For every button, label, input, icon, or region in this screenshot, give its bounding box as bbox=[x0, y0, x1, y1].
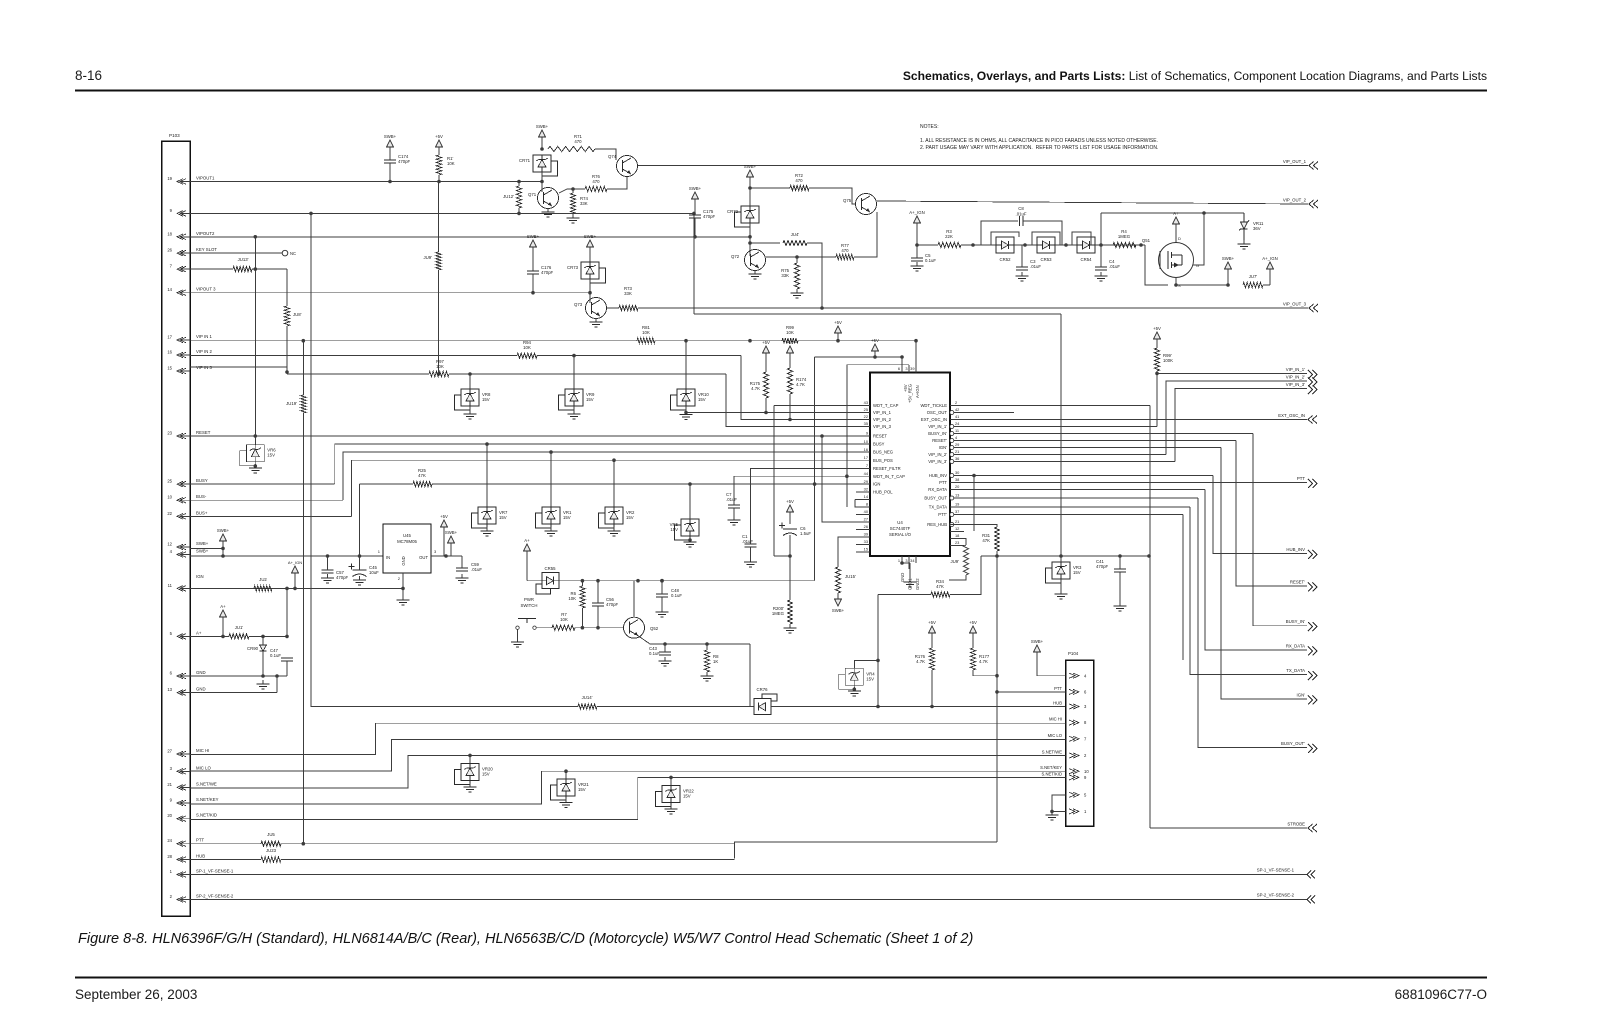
ground bbox=[321, 574, 334, 583]
junction bbox=[915, 243, 919, 247]
power A+_IGN bbox=[1262, 256, 1277, 269]
svg-text:0.1uF: 0.1uF bbox=[270, 653, 281, 658]
zener VR3 bbox=[1046, 562, 1082, 583]
wire bbox=[575, 627, 623, 629]
P104 pin 5 bbox=[1069, 792, 1087, 797]
jumper JU5 bbox=[261, 832, 281, 846]
svg-text:CR55: CR55 bbox=[545, 566, 557, 571]
U4 pin 10 bbox=[856, 439, 885, 447]
net VIP_OUT_3 bbox=[1283, 302, 1318, 313]
U4 pin 25 bbox=[856, 407, 892, 415]
wire bbox=[874, 351, 876, 357]
svg-text:33K: 33K bbox=[580, 201, 588, 206]
svg-text:PTT: PTT bbox=[1054, 686, 1062, 691]
svg-text:15V: 15V bbox=[1073, 570, 1081, 575]
svg-text:VIPOUT 3: VIPOUT 3 bbox=[196, 287, 216, 292]
junction bbox=[876, 705, 880, 709]
wire PTT bbox=[190, 843, 261, 845]
svg-text:HUB_POL: HUB_POL bbox=[873, 490, 893, 495]
svg-text:470pF: 470pF bbox=[703, 214, 716, 219]
net PTT bbox=[1297, 476, 1317, 488]
wire bbox=[541, 137, 543, 149]
wire bbox=[685, 341, 687, 389]
P104 pin 10 bbox=[1040, 765, 1089, 774]
P104 pin 4 bbox=[1069, 673, 1087, 678]
wire VIP IN 2 bbox=[190, 355, 517, 357]
wire bbox=[1263, 284, 1270, 286]
svg-text:20: 20 bbox=[167, 813, 172, 818]
junction bbox=[1155, 372, 1159, 376]
wire bbox=[1032, 232, 1060, 245]
P103 pin 9 bbox=[170, 208, 190, 216]
svg-text:+5V: +5V bbox=[834, 320, 842, 325]
U4 pin 39 bbox=[856, 532, 870, 537]
wire bbox=[664, 644, 666, 652]
svg-text:MIC LO: MIC LO bbox=[196, 765, 211, 770]
capacitor C59 bbox=[456, 562, 482, 572]
label IGN bbox=[196, 574, 204, 579]
svg-text:S.NET/WE: S.NET/WE bbox=[1042, 750, 1062, 755]
wire bbox=[1198, 498, 1307, 748]
wire bbox=[597, 581, 599, 603]
svg-text:SP-1_VF-SENSE-1: SP-1_VF-SENSE-1 bbox=[1257, 868, 1295, 873]
svg-text:8: 8 bbox=[866, 502, 868, 507]
junction bbox=[437, 180, 441, 184]
junction bbox=[972, 474, 976, 478]
wire VIPOUT1 bbox=[190, 181, 542, 183]
U4 pin 8 bbox=[856, 502, 870, 507]
capacitor C6 bbox=[779, 523, 811, 537]
svg-text:SP-2_VF-SENSE-2: SP-2_VF-SENSE-2 bbox=[196, 894, 234, 899]
ground bbox=[848, 687, 861, 696]
U4 pin 7 bbox=[856, 463, 901, 471]
svg-text:Q75: Q75 bbox=[843, 198, 852, 203]
header rule bbox=[75, 90, 1487, 92]
svg-text:+5V: +5V bbox=[928, 620, 936, 625]
svg-text:GND: GND bbox=[401, 556, 406, 565]
wire bbox=[847, 364, 909, 366]
svg-text:NOTES:: NOTES: bbox=[920, 124, 939, 130]
wire bbox=[789, 556, 791, 600]
wire bbox=[1023, 221, 1062, 245]
svg-text:10K: 10K bbox=[560, 617, 568, 622]
U4 pin 30 bbox=[929, 470, 964, 478]
ground bbox=[590, 318, 603, 327]
svg-text:CR52: CR52 bbox=[1000, 257, 1012, 262]
junction bbox=[788, 554, 792, 558]
svg-text:47K: 47K bbox=[418, 473, 426, 478]
junction bbox=[873, 355, 877, 359]
svg-text:15V: 15V bbox=[499, 515, 507, 520]
svg-text:25: 25 bbox=[167, 479, 172, 484]
resistor R8 bbox=[704, 650, 719, 672]
svg-text:C8: C8 bbox=[1018, 206, 1024, 211]
svg-text:RESET': RESET' bbox=[932, 438, 947, 443]
svg-text:4.7K: 4.7K bbox=[916, 659, 925, 664]
net VIP_OUT_1 bbox=[1283, 159, 1318, 170]
junction bbox=[795, 255, 799, 259]
svg-text:SWB+: SWB+ bbox=[196, 549, 209, 554]
wire bbox=[685, 406, 687, 413]
svg-text:33K: 33K bbox=[781, 273, 789, 278]
wire bbox=[360, 483, 414, 485]
power A+ bbox=[1172, 211, 1179, 224]
wire bbox=[581, 581, 583, 586]
wire bbox=[749, 223, 751, 237]
svg-text:RESET': RESET' bbox=[1290, 579, 1305, 584]
svg-text:2. PART USAGE MAY VARY WITH AP: 2. PART USAGE MAY VARY WITH APPLICATION.… bbox=[920, 145, 1158, 151]
wire bbox=[1157, 372, 1307, 374]
svg-text:SERIAL I/O: SERIAL I/O bbox=[889, 532, 912, 537]
wire bbox=[572, 189, 574, 193]
P103 pin 16 bbox=[167, 349, 212, 358]
capacitor C45 bbox=[349, 564, 380, 577]
wire bbox=[389, 147, 391, 160]
wire bbox=[950, 539, 966, 546]
jumper JU15' bbox=[835, 567, 856, 593]
notes bbox=[920, 124, 1158, 151]
svg-text:PTT': PTT' bbox=[938, 512, 947, 517]
svg-text:10: 10 bbox=[167, 495, 172, 500]
svg-text:BUS+: BUS+ bbox=[196, 510, 208, 515]
wire bbox=[996, 551, 998, 842]
svg-text:+5V: +5V bbox=[969, 620, 977, 625]
resistor R31 bbox=[982, 527, 999, 551]
U4 pin 33 GND1 bbox=[905, 556, 912, 590]
P103 pin 3 bbox=[170, 765, 212, 774]
svg-text:+5V: +5V bbox=[786, 499, 794, 504]
svg-text:4.7K: 4.7K bbox=[796, 382, 805, 387]
zener VR4 bbox=[839, 668, 875, 689]
transistor Q73 bbox=[574, 298, 607, 319]
resistor R175 bbox=[750, 372, 769, 398]
svg-text:6: 6 bbox=[898, 366, 900, 371]
wire VIP_IN_2' bbox=[964, 454, 1166, 456]
svg-text:28: 28 bbox=[167, 854, 172, 859]
svg-text:SWB+: SWB+ bbox=[584, 234, 597, 239]
wire bbox=[302, 341, 304, 395]
svg-text:470pF: 470pF bbox=[336, 575, 349, 580]
wire bbox=[438, 147, 440, 155]
ground bbox=[1016, 272, 1029, 281]
svg-text:S: S bbox=[1178, 283, 1181, 288]
U4 pin 42 bbox=[927, 407, 964, 415]
P104 pin 7 bbox=[1048, 733, 1087, 742]
svg-text:11: 11 bbox=[955, 428, 959, 433]
junction bbox=[705, 642, 709, 646]
svg-text:39: 39 bbox=[910, 366, 914, 371]
svg-text:13: 13 bbox=[167, 687, 172, 692]
wire bbox=[597, 706, 754, 708]
svg-text:15V: 15V bbox=[683, 794, 691, 799]
junction bbox=[468, 754, 472, 758]
wire bbox=[837, 593, 839, 599]
svg-text:A+: A+ bbox=[220, 604, 226, 609]
resistor R74 bbox=[570, 193, 588, 214]
net IGN' bbox=[1297, 693, 1317, 705]
svg-text:MIC LO: MIC LO bbox=[1048, 733, 1063, 738]
U4 pin 3 +5V_REG bbox=[905, 365, 912, 403]
wire bbox=[222, 541, 224, 556]
svg-text:HUB: HUB bbox=[196, 854, 205, 859]
wire BUS- bbox=[190, 499, 343, 501]
U4 pin 32 bbox=[856, 487, 893, 495]
svg-text:.01uF: .01uF bbox=[742, 539, 753, 544]
wire bbox=[402, 573, 404, 598]
transistor Q51 bbox=[1142, 236, 1199, 288]
wire bbox=[1052, 795, 1066, 812]
wire bbox=[815, 356, 902, 358]
wire bbox=[286, 269, 288, 306]
svg-text:U45: U45 bbox=[403, 533, 411, 538]
U4 pin 22 bbox=[856, 414, 892, 422]
ground bbox=[568, 410, 581, 419]
wire bbox=[789, 394, 791, 420]
wire bbox=[1253, 434, 1307, 626]
wire bbox=[661, 581, 663, 594]
svg-text:VIP_IN_2: VIP_IN_2 bbox=[873, 417, 892, 422]
svg-text:JU5: JU5 bbox=[267, 832, 275, 837]
wire bbox=[276, 676, 278, 693]
U4 pin 39 A+IGN bbox=[910, 341, 920, 398]
svg-text:A+_IGN: A+_IGN bbox=[909, 210, 924, 215]
wire bbox=[726, 374, 870, 427]
junction bbox=[517, 212, 521, 216]
wire bbox=[438, 175, 440, 182]
svg-text:OUT: OUT bbox=[419, 555, 428, 560]
junction bbox=[1059, 554, 1063, 558]
wire bbox=[846, 365, 848, 507]
svg-text:29: 29 bbox=[955, 442, 959, 447]
zener VR2 bbox=[599, 507, 635, 528]
power SWB+ bbox=[1031, 639, 1044, 652]
ground bbox=[560, 799, 573, 808]
svg-text:JU2: JU2 bbox=[259, 577, 267, 582]
wire bbox=[431, 555, 462, 557]
svg-text:1: 1 bbox=[898, 558, 900, 563]
svg-text:19: 19 bbox=[955, 502, 959, 507]
wire bbox=[190, 635, 229, 637]
P103 pin 14 bbox=[167, 287, 216, 296]
svg-text:470: 470 bbox=[795, 178, 803, 183]
wire pin9 bbox=[190, 212, 694, 214]
svg-text:VIP_IN_3: VIP_IN_3 bbox=[873, 424, 892, 429]
connector P104 bbox=[1066, 651, 1094, 826]
svg-text:.01uF: .01uF bbox=[1030, 264, 1041, 269]
jumper JU14' bbox=[578, 695, 597, 709]
capacitor bbox=[689, 209, 716, 219]
P103 pin 28 bbox=[167, 854, 205, 863]
U4 pin 16 bbox=[856, 447, 893, 455]
junction bbox=[660, 579, 664, 583]
svg-text:10K: 10K bbox=[523, 345, 531, 350]
junction bbox=[813, 482, 817, 486]
label C47 position fix bbox=[0, 0, 1, 1]
wire bbox=[1060, 314, 1062, 556]
svg-text:IGN': IGN' bbox=[939, 445, 947, 450]
wire bbox=[950, 525, 997, 528]
jumper JU23 bbox=[261, 848, 281, 862]
svg-text:SWB+: SWB+ bbox=[1031, 639, 1044, 644]
wire bbox=[541, 172, 543, 182]
ground bbox=[456, 574, 469, 583]
svg-text:SWB+: SWB+ bbox=[1222, 256, 1235, 261]
wire bbox=[749, 177, 751, 188]
svg-text:47K: 47K bbox=[936, 584, 944, 589]
svg-text:U4: U4 bbox=[897, 520, 903, 525]
net HUB_INV bbox=[1286, 547, 1317, 559]
diode CR53 bbox=[1037, 237, 1055, 262]
svg-text:EXT_OSC_IN: EXT_OSC_IN bbox=[921, 417, 947, 422]
junction bbox=[285, 635, 289, 639]
svg-text:470pF: 470pF bbox=[398, 159, 411, 164]
svg-text:+5V: +5V bbox=[786, 340, 794, 345]
svg-text:A+_IGN: A+_IGN bbox=[1262, 256, 1277, 261]
junction bbox=[221, 554, 225, 558]
wire bbox=[1060, 556, 1062, 562]
svg-text:RESET: RESET bbox=[196, 430, 211, 435]
capacitor bbox=[911, 253, 936, 263]
svg-text:17: 17 bbox=[864, 455, 868, 460]
transistor Q72 bbox=[731, 250, 766, 271]
wire bbox=[789, 512, 791, 524]
ground bbox=[567, 214, 580, 223]
P103 pin 19 bbox=[167, 176, 215, 185]
power A+_IGN bbox=[288, 560, 302, 573]
wire bbox=[1156, 339, 1158, 348]
svg-text:IN: IN bbox=[386, 555, 390, 560]
svg-text:15V: 15V bbox=[626, 515, 634, 520]
svg-text:MIC HI: MIC HI bbox=[1049, 717, 1062, 722]
U4 pin 34 GND2 bbox=[910, 556, 920, 590]
wire bbox=[573, 356, 575, 389]
svg-text:41: 41 bbox=[955, 414, 959, 419]
junction bbox=[692, 212, 696, 216]
zener CR73 bbox=[567, 262, 606, 283]
wire bbox=[638, 636, 750, 644]
svg-text:24: 24 bbox=[167, 838, 172, 843]
zener VR1 bbox=[536, 507, 572, 528]
svg-text:0.1uF: 0.1uF bbox=[671, 593, 682, 598]
wire bbox=[733, 508, 735, 518]
wire VIP_OUT_1 bbox=[638, 165, 1308, 167]
wire BUSY_OUT bbox=[964, 497, 1198, 499]
junction bbox=[1050, 810, 1054, 814]
wire bbox=[902, 562, 910, 564]
ground bbox=[1114, 602, 1127, 611]
svg-text:0.1uF: 0.1uF bbox=[925, 258, 936, 263]
svg-text:P104: P104 bbox=[1068, 651, 1079, 656]
svg-text:JU8': JU8' bbox=[293, 312, 302, 317]
U4 pin 43 bbox=[856, 400, 899, 408]
ground bbox=[481, 527, 494, 536]
svg-text:SWB+: SWB+ bbox=[689, 186, 702, 191]
svg-text:WDT_T_CAP: WDT_T_CAP bbox=[873, 403, 899, 408]
svg-text:BUSY_OUT': BUSY_OUT' bbox=[1281, 741, 1305, 746]
junction bbox=[788, 418, 792, 422]
junction bbox=[221, 635, 225, 639]
wire bbox=[1014, 244, 1037, 246]
wire EXT_OSC_IN bbox=[964, 419, 1307, 421]
wire bbox=[949, 575, 966, 580]
jumper JU9' bbox=[424, 252, 442, 270]
svg-text:Q71: Q71 bbox=[528, 192, 537, 197]
P104 pin 8 bbox=[1049, 717, 1087, 726]
wire bbox=[981, 555, 1149, 557]
svg-text:43: 43 bbox=[864, 400, 868, 405]
svg-text:21: 21 bbox=[955, 449, 959, 454]
svg-text:18: 18 bbox=[955, 533, 959, 538]
wire bbox=[190, 268, 233, 270]
power +5V bbox=[969, 620, 977, 633]
wire bbox=[670, 777, 672, 785]
svg-text:SWB+: SWB+ bbox=[832, 608, 845, 613]
wire bbox=[222, 617, 224, 636]
wire bbox=[961, 244, 996, 246]
footer rule bbox=[75, 977, 1487, 979]
P103 pin 5 bbox=[170, 630, 202, 639]
wire bbox=[981, 221, 1018, 245]
svg-text:+5V: +5V bbox=[762, 340, 770, 345]
wire bbox=[855, 500, 870, 508]
svg-text:S.NET/WE: S.NET/WE bbox=[196, 781, 217, 786]
wire bbox=[573, 406, 575, 412]
wire bbox=[1269, 269, 1271, 285]
capacitor C1 bbox=[742, 534, 757, 547]
svg-text:SC74407F: SC74407F bbox=[890, 526, 911, 531]
wire bbox=[854, 660, 878, 668]
svg-text:12: 12 bbox=[167, 542, 172, 547]
junction bbox=[820, 434, 824, 438]
power SWB+ bbox=[689, 186, 702, 199]
wire bbox=[1236, 441, 1307, 586]
zener VR11 bbox=[1239, 213, 1264, 240]
wire bbox=[302, 413, 304, 844]
svg-text:VIP IN 1: VIP IN 1 bbox=[196, 334, 213, 339]
wire bbox=[1175, 231, 1177, 242]
ground bbox=[791, 289, 804, 298]
wire bbox=[837, 333, 839, 341]
svg-text:CR72: CR72 bbox=[727, 209, 739, 214]
switch PWR SWITCH bbox=[516, 597, 538, 629]
junction bbox=[836, 339, 840, 343]
junction bbox=[444, 554, 448, 558]
wire WDT_TICKLE bbox=[964, 405, 1150, 407]
svg-text:8-16: 8-16 bbox=[75, 68, 102, 83]
svg-text:WDT_IN_T_CAP: WDT_IN_T_CAP bbox=[873, 474, 905, 479]
svg-text:23: 23 bbox=[167, 431, 172, 436]
wire VIPOUT2 bbox=[190, 236, 750, 238]
junction bbox=[564, 769, 568, 773]
capacitor C8 bbox=[1016, 206, 1027, 226]
svg-text:Q51: Q51 bbox=[1142, 238, 1151, 243]
svg-text:15: 15 bbox=[864, 547, 868, 552]
svg-text:TX_DATA: TX_DATA bbox=[1286, 668, 1305, 673]
wire bbox=[796, 257, 798, 263]
U4 pin 27 bbox=[856, 517, 870, 522]
wire bbox=[633, 581, 635, 618]
wire bbox=[469, 374, 471, 389]
net BUSY_OUT' bbox=[1281, 741, 1317, 753]
svg-text:SWB+: SWB+ bbox=[445, 530, 458, 535]
wire bbox=[359, 556, 361, 570]
resistor R200' bbox=[772, 600, 793, 624]
junction bbox=[485, 442, 489, 446]
wire bbox=[807, 243, 822, 308]
svg-text:Q73: Q73 bbox=[574, 302, 583, 307]
svg-text:JU9': JU9' bbox=[424, 255, 433, 260]
svg-text:14: 14 bbox=[167, 287, 172, 292]
